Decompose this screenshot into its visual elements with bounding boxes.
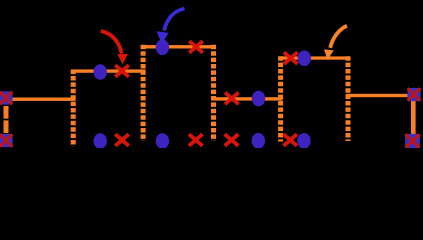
x marker X1 on L2 <box>115 65 129 77</box>
ellipse marker E1 on L2 <box>94 64 107 80</box>
wire L3 step segment at y=47 <box>141 45 215 48</box>
solid connector right edge <box>411 100 416 134</box>
wire L2 step segment at y=71 <box>71 69 146 72</box>
x marker X2 on L3 <box>189 41 203 53</box>
node square TR <box>407 88 420 101</box>
wire L1 baseline segment left <box>0 98 76 101</box>
bottom row ellipse B4e <box>297 133 310 149</box>
bottom row ellipse B3e <box>252 133 265 149</box>
bottom row x B4x <box>283 134 297 146</box>
node square TL <box>0 91 13 104</box>
dashed boundary column C4 <box>278 56 283 141</box>
node square BL <box>0 134 13 147</box>
ellipse marker E2 on L3 <box>156 40 169 56</box>
node square BR <box>405 134 420 148</box>
bottom row x B1x <box>115 134 129 146</box>
red curved arrow A1 <box>101 31 128 64</box>
bottom row ellipse B1e <box>94 133 107 149</box>
bottom row x B3x <box>225 134 239 146</box>
bottom row x B2x <box>189 134 203 146</box>
ellipse marker E3 on L4 <box>252 91 265 107</box>
x marker X4 on L5 <box>284 52 298 64</box>
dashed boundary column C1 <box>71 70 76 147</box>
wire L4 baseline segment middle <box>212 97 283 100</box>
dashed connector left edge <box>4 106 9 134</box>
dashed boundary column C5 <box>346 56 351 141</box>
blue curved arrow A2 <box>157 9 185 45</box>
wire L6 upper-baseline segment right <box>346 94 414 97</box>
wire L5 step segment at y=58 <box>279 56 350 59</box>
dashed boundary column C2 <box>141 45 146 141</box>
orange curved arrow A3 <box>324 26 347 60</box>
x marker X3 on L4 <box>225 93 239 105</box>
bottom row ellipse B2e <box>156 133 169 149</box>
ellipse marker E4 on L5 <box>298 51 311 67</box>
dashed boundary column C3 <box>211 45 216 141</box>
